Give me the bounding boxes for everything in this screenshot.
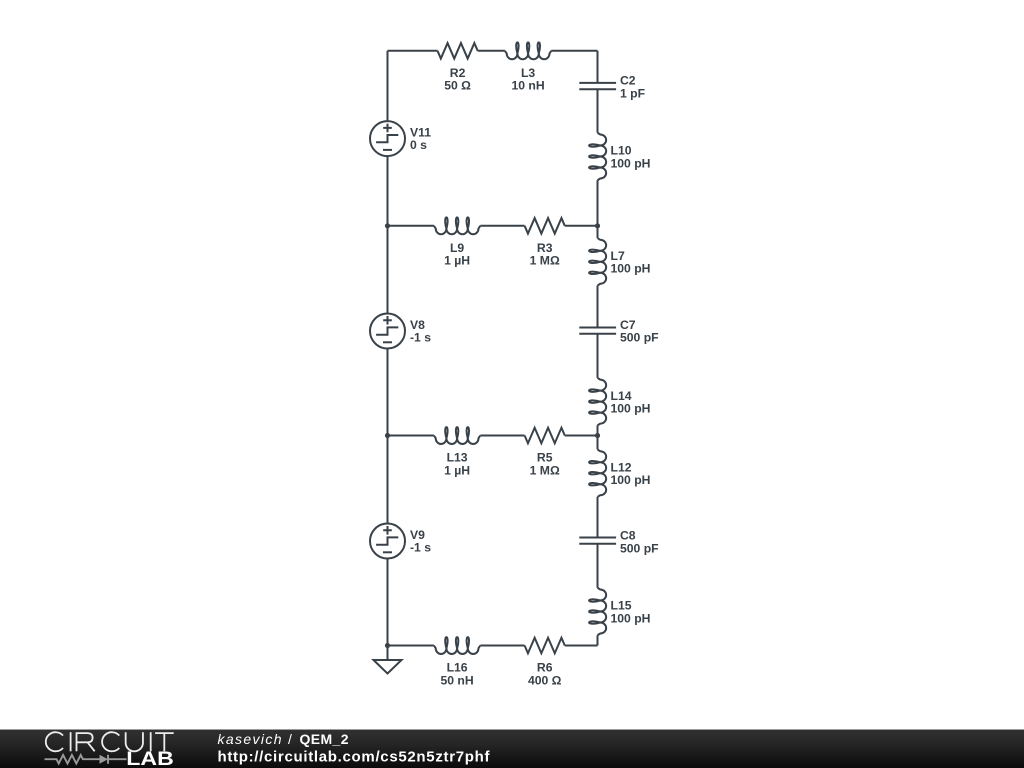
svg-text:C8: C8: [620, 528, 636, 542]
resistor R5: [525, 428, 565, 444]
inductor L9: [434, 217, 480, 234]
svg-text:50 Ω: 50 Ω: [444, 79, 471, 93]
wire C2 to L10: [597, 89, 599, 133]
wire row4 right segment: [565, 645, 598, 647]
inductor L14: [589, 378, 606, 426]
voltage source V9: [370, 524, 405, 559]
resistor R6: [525, 638, 565, 654]
junction row2 left: [385, 223, 390, 228]
wire C7 to L14: [597, 334, 599, 378]
wire left column top: [387, 51, 389, 121]
logo wordmark CIRCUIT: [46, 732, 174, 751]
svg-text:1 µH: 1 µH: [444, 254, 470, 268]
resistor R2: [438, 43, 478, 59]
capacitor C2: [579, 83, 616, 89]
wire left row2 to V8: [387, 226, 389, 314]
wire row2 left segment: [388, 225, 434, 227]
inductor L12: [589, 449, 606, 497]
svg-text:100 pH: 100 pH: [611, 401, 651, 415]
wire row1 middle segment: [478, 50, 505, 52]
wire row4 left segment: [388, 645, 434, 647]
wire ground stub: [387, 646, 389, 661]
wire row2 middle segment: [480, 225, 524, 227]
inductor L3: [505, 42, 551, 59]
svg-text:kasevich: kasevich: [218, 731, 282, 747]
wire row3 middle segment: [480, 435, 524, 437]
wire row1 right segment: [551, 50, 597, 52]
wire L7 to C7: [597, 286, 599, 328]
inductor L13: [434, 427, 480, 444]
voltage source V8: [370, 314, 405, 349]
wire row3 right segment: [565, 435, 598, 437]
wire left V8 to row3: [387, 349, 389, 436]
svg-text:http://circuitlab.com/cs52n5zt: http://circuitlab.com/cs52n5ztr7phf: [218, 749, 491, 766]
voltage source V11: [370, 121, 405, 156]
wire row2 right segment: [565, 225, 598, 227]
wire row3 left segment: [388, 435, 434, 437]
wire right column top: [597, 51, 599, 83]
svg-text:100 pH: 100 pH: [611, 473, 651, 487]
svg-text:1 pF: 1 pF: [620, 86, 645, 100]
svg-text:400 Ω: 400 Ω: [528, 673, 562, 687]
svg-text:-1 s: -1 s: [410, 541, 431, 555]
junction row3 left: [385, 433, 390, 438]
svg-text:100 pH: 100 pH: [611, 156, 651, 170]
svg-text:1 µH: 1 µH: [444, 463, 470, 477]
junction row2 right: [595, 223, 600, 228]
wire row4 middle segment: [480, 645, 524, 647]
wire left V11 to row2: [387, 156, 389, 226]
inductor L15: [589, 588, 606, 636]
svg-text:0 s: 0 s: [410, 138, 427, 152]
logo schematic glyph: [45, 755, 127, 764]
inductor L16: [434, 637, 480, 654]
wire L10 to L7: [597, 180, 599, 238]
wire left V9 to row4: [387, 559, 389, 646]
svg-text:LAB: LAB: [126, 749, 174, 768]
svg-text:QEM_2: QEM_2: [300, 731, 349, 747]
svg-text:50 nH: 50 nH: [440, 673, 473, 687]
svg-text:10 nH: 10 nH: [511, 79, 544, 93]
svg-text:100 pH: 100 pH: [611, 262, 651, 276]
junction row3 right: [595, 433, 600, 438]
wire L14 to row3 junction: [597, 425, 599, 449]
wire row1 left segment: [388, 50, 438, 52]
svg-text:-1 s: -1 s: [410, 331, 431, 345]
resistor R3: [525, 218, 565, 234]
wire L12 to C8: [597, 497, 599, 538]
junction row4 left: [385, 643, 390, 648]
svg-text:/: /: [288, 731, 292, 747]
svg-text:1 MΩ: 1 MΩ: [530, 254, 560, 268]
svg-text:500 pF: 500 pF: [620, 331, 659, 345]
svg-text:1 MΩ: 1 MΩ: [530, 463, 560, 477]
svg-text:500 pF: 500 pF: [620, 541, 659, 555]
wire L15 to row4 corner: [597, 635, 599, 645]
capacitor C8: [579, 538, 616, 544]
ground: [374, 660, 402, 674]
capacitor C7: [579, 328, 616, 334]
wire C8 to L15: [597, 544, 599, 588]
svg-text:100 pH: 100 pH: [611, 611, 651, 625]
wire left row3 to V9: [387, 436, 389, 524]
inductor L7: [589, 238, 606, 285]
inductor L10: [589, 133, 606, 181]
